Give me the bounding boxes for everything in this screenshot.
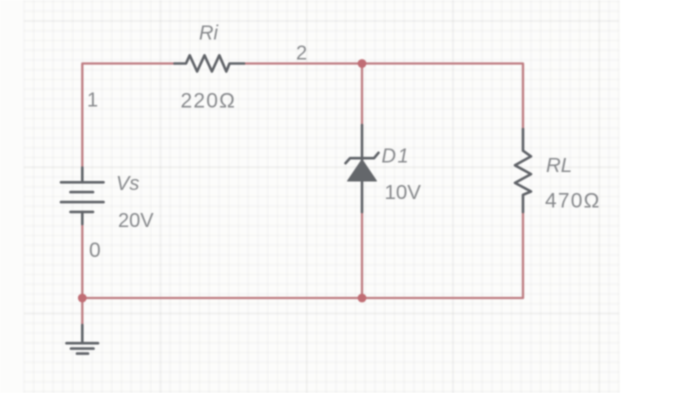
svg-text:470Ω: 470Ω xyxy=(545,190,601,213)
svg-text:1: 1 xyxy=(87,90,98,112)
svg-text:RL: RL xyxy=(546,154,572,177)
svg-text:20V: 20V xyxy=(118,210,154,232)
svg-text:Ri: Ri xyxy=(199,23,218,45)
svg-text:2: 2 xyxy=(296,43,307,65)
svg-text:220Ω: 220Ω xyxy=(181,90,237,113)
svg-text:Vs: Vs xyxy=(116,173,139,195)
svg-text:0: 0 xyxy=(89,239,101,262)
svg-text:D1: D1 xyxy=(382,146,411,168)
svg-text:10V: 10V xyxy=(385,181,422,204)
